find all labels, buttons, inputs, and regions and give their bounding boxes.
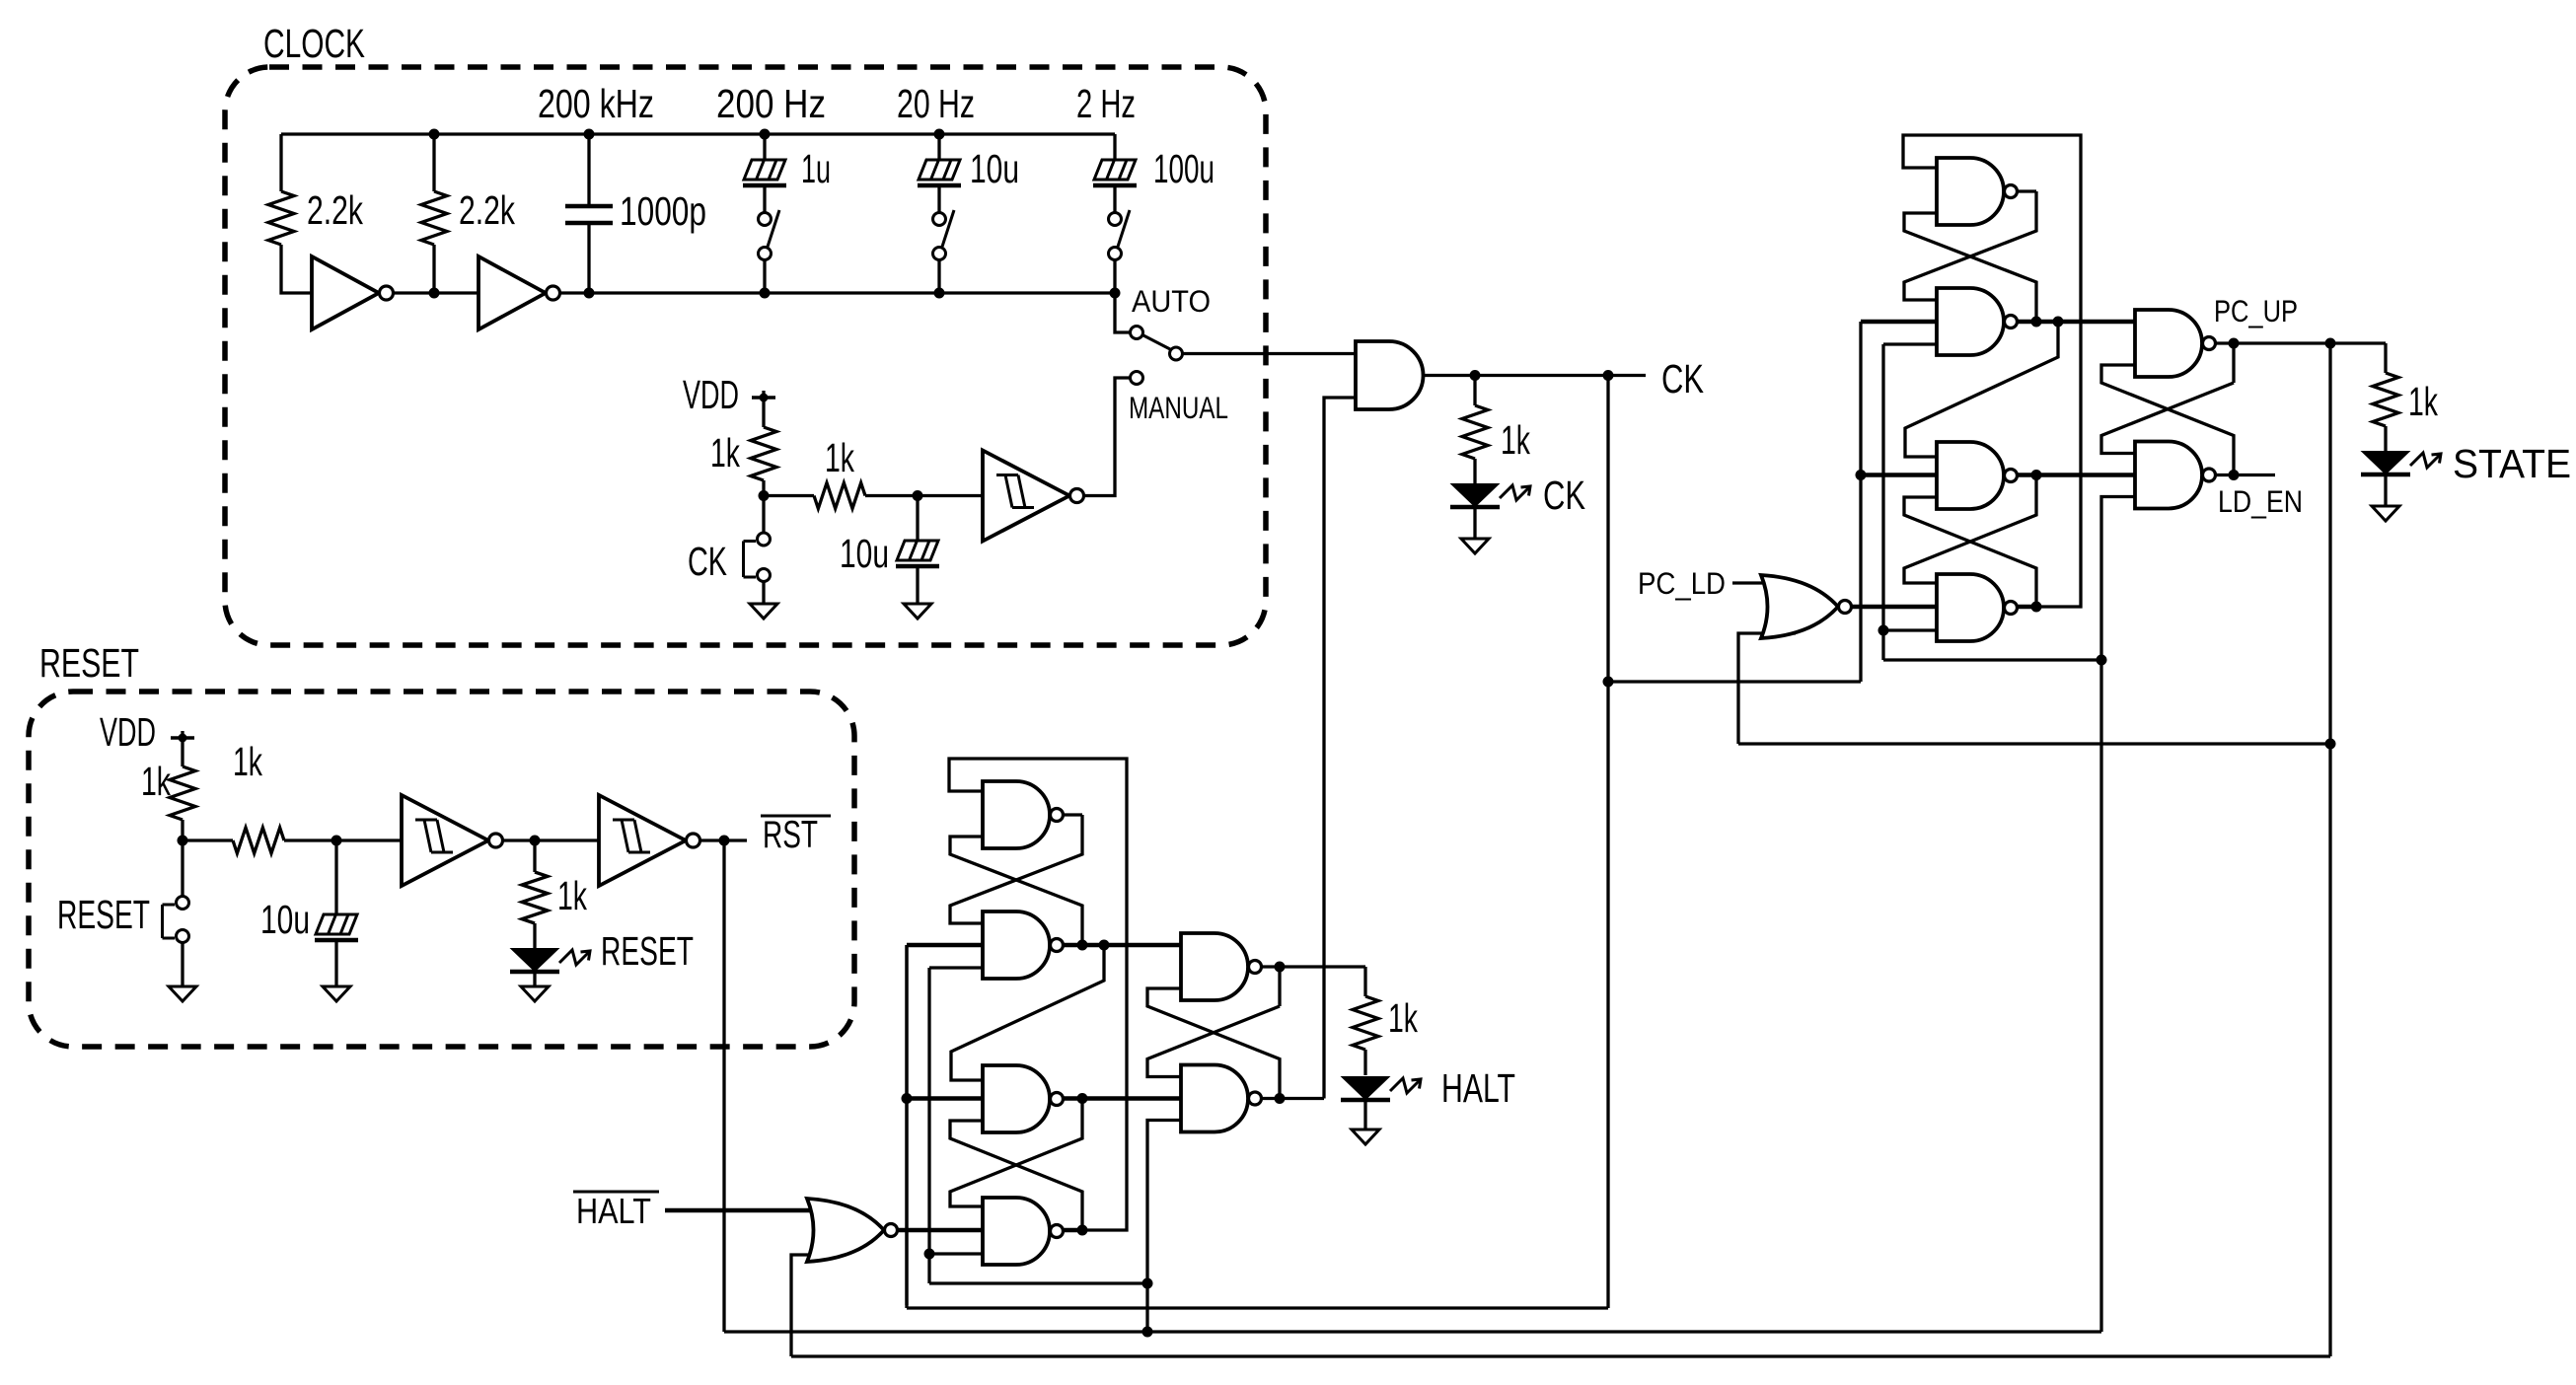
svg-text:1000p: 1000p xyxy=(620,188,706,234)
label R7 value 1k xyxy=(557,873,587,918)
wire CK bottom run xyxy=(907,1306,1608,1309)
junction G3 out (HALT latch) xyxy=(1077,1093,1088,1104)
wire MANUAL contact to Schmitt U2A output xyxy=(1083,378,1131,496)
wire R3 to junction xyxy=(762,480,765,533)
switch SW6 AUTO/MANUAL selector xyxy=(1131,327,1183,385)
junction reset rail G4 (HALT latch) xyxy=(924,1249,935,1260)
NAND U7B (HALT latch) xyxy=(983,911,1064,979)
wire HALT latch Q output row xyxy=(1262,965,1365,968)
junction oscillator top rail / R2 xyxy=(429,129,440,140)
label RESET pushbutton xyxy=(57,892,150,937)
svg-text:200 Hz: 200 Hz xyxy=(716,81,826,126)
svg-text:2 Hz: 2 Hz xyxy=(1076,81,1136,126)
wire R2 bottom xyxy=(432,245,435,293)
wire G3 output row (HALT latch) xyxy=(907,1096,1181,1101)
svg-text:1k: 1k xyxy=(710,430,740,475)
switch SW3 2Hz xyxy=(1109,210,1131,260)
resistor R7 1k xyxy=(522,872,548,923)
svg-text:1u: 1u xyxy=(801,146,831,191)
label R9 value 1k xyxy=(2408,379,2438,424)
wire C4 top xyxy=(1113,134,1116,160)
wire VDD to R3 xyxy=(762,391,765,427)
wire PC_LD input xyxy=(1732,581,1796,584)
VDD symbol (reset) xyxy=(171,734,194,743)
wire oscillator top rail xyxy=(281,132,1115,135)
Schmitt inverter U2A xyxy=(983,451,1084,542)
svg-text:1k: 1k xyxy=(825,435,854,480)
capacitor C4 100u xyxy=(1093,160,1137,185)
wire SW3 bottom xyxy=(1113,259,1116,293)
wire SW1 bottom xyxy=(763,259,766,293)
svg-text:RESET: RESET xyxy=(39,640,139,686)
svg-text:RESET: RESET xyxy=(57,892,150,937)
junction clock rail G3 (STATE latch) xyxy=(1856,470,1867,480)
label RESET section xyxy=(39,640,139,686)
wire U3B output to RST node xyxy=(699,838,747,841)
wire G2 output row (HALT latch) xyxy=(907,943,1181,948)
wire feedback G4 to G1 (STATE latch) xyxy=(1903,135,2081,607)
capacitor C1 1000p xyxy=(565,206,613,223)
svg-text:VDD: VDD xyxy=(683,372,739,417)
svg-text:1k: 1k xyxy=(233,739,262,784)
ground (LED D3) xyxy=(2372,506,2399,521)
wire G4 out to G3 in cross (HALT latch) xyxy=(950,1121,1082,1230)
svg-text:1k: 1k xyxy=(1388,995,1418,1041)
wire NOR U6A lower input from PC_UP run xyxy=(791,1255,817,1356)
label R10 value 1k xyxy=(1388,995,1418,1041)
wire G2 output row (STATE latch) xyxy=(1861,320,2135,325)
wire R5 to junction xyxy=(181,820,184,897)
label VDD (reset) xyxy=(100,709,156,755)
VDD symbol (clock) xyxy=(752,394,775,402)
label LED D2 CK xyxy=(1543,473,1585,518)
LED D2 CK xyxy=(1450,484,1530,507)
junction G4 out (STATE latch) xyxy=(2031,602,2042,613)
wire R4 to Schmitt U2A input xyxy=(865,494,983,497)
svg-text:HALT: HALT xyxy=(576,1191,651,1231)
svg-text:PC_UP: PC_UP xyxy=(2214,293,2298,328)
junction PC_UP feedback xyxy=(2325,338,2336,349)
label LED D3 STATE xyxy=(2453,441,2571,486)
junction U3A output node xyxy=(530,836,541,846)
ground (LED D4) xyxy=(1352,1130,1379,1144)
wire R7 to LED D1 xyxy=(533,923,536,949)
resistor R3 1k xyxy=(751,427,776,480)
junction C6 node xyxy=(331,836,342,846)
NAND U7C (HALT latch) xyxy=(983,1065,1064,1132)
wire G5 out leg (STATE latch) xyxy=(2232,343,2235,383)
junction G3 out (STATE latch) xyxy=(2031,470,2042,480)
wire G4 output row (STATE latch) xyxy=(1852,605,2036,610)
wire reset rail stub G2 (STATE latch) xyxy=(1883,342,1937,345)
junction CK to state latch clock xyxy=(1603,677,1614,688)
pushbutton SW5 CK xyxy=(744,533,771,582)
wire C6 top xyxy=(334,840,337,914)
wire G4 output row (HALT latch) xyxy=(898,1228,1082,1233)
wire C3 to SW2 xyxy=(937,187,940,213)
NAND U10A (STATE latch) xyxy=(2135,310,2216,377)
wire G4 out to G3 in cross (STATE latch) xyxy=(1904,497,2036,607)
svg-text:1k: 1k xyxy=(557,873,587,918)
wire clock rail (HALT latch) xyxy=(905,945,908,1305)
label C3 value 10u xyxy=(970,146,1019,191)
label VDD (clock) xyxy=(683,372,739,417)
junction G2 out A (HALT latch) xyxy=(1077,940,1088,951)
wire LED D2 to ground xyxy=(1473,509,1476,539)
junction CK LED branch xyxy=(1470,370,1481,381)
wire CK net from AND gate U4A xyxy=(1424,374,1647,377)
junction VDD divider node (reset) xyxy=(178,836,188,846)
junction clock rail G3 (HALT latch) xyxy=(902,1093,913,1104)
inverter U1B xyxy=(478,256,560,329)
wire reset rail (HALT latch) xyxy=(927,968,930,1283)
svg-text:10u: 10u xyxy=(970,146,1019,191)
junction CK vertical branch xyxy=(1603,370,1614,381)
svg-text:1k: 1k xyxy=(141,759,171,804)
label C2 value 1u xyxy=(801,146,831,191)
wire PC_UP feedback horizontal xyxy=(1738,742,2330,745)
wire G5 out leg (HALT latch) xyxy=(1278,967,1281,1006)
wire G2 out to G1 in cross (HALT latch) xyxy=(950,837,1082,945)
wire G5 out to G6 in cross (STATE latch) xyxy=(2101,383,2234,454)
label 2 Hz xyxy=(1076,81,1136,126)
wire clock rail (STATE latch) xyxy=(1859,322,1862,682)
wire C2 to SW1 xyxy=(763,187,766,213)
label R5 value 1k xyxy=(141,759,171,804)
wire VDD to R5 xyxy=(181,731,184,766)
junction oscillator top rail / C2 xyxy=(760,129,771,140)
label R8 value 1k xyxy=(1501,417,1530,463)
wire PC_UP output row xyxy=(2216,341,2386,344)
label HALT-bar input xyxy=(576,1191,651,1231)
inverter U1A xyxy=(312,256,394,329)
svg-text:1k: 1k xyxy=(1501,417,1530,463)
overline HALT xyxy=(573,1191,659,1194)
wire G1 out to G2 in cross (STATE latch) xyxy=(1904,191,2036,300)
wire feedback G4 to G1 (HALT latch) xyxy=(949,759,1127,1230)
svg-text:10u: 10u xyxy=(840,531,889,576)
wire U3A output to U3B input xyxy=(502,838,599,841)
overline RST xyxy=(761,815,831,818)
resistor R4 1k xyxy=(814,483,865,509)
wire R8 to LED D2 xyxy=(1473,459,1476,484)
wire clock rail bottom (HALT latch) xyxy=(905,945,908,1308)
svg-text:RESET: RESET xyxy=(601,928,694,974)
wire PC_UP bottom run xyxy=(791,1354,2330,1357)
wire G1 output stub (STATE latch) xyxy=(2018,189,2036,192)
junction reset rail link (HALT latch) xyxy=(1142,1278,1153,1289)
switch SW1 200Hz xyxy=(759,210,780,260)
svg-text:20 Hz: 20 Hz xyxy=(897,81,975,126)
svg-text:STATE: STATE xyxy=(2453,441,2571,486)
pushbutton SW4 RESET xyxy=(163,897,189,943)
NOR gate U6A xyxy=(807,1199,898,1262)
wire LD_EN output row xyxy=(2216,474,2275,476)
NAND U8B (HALT latch) xyxy=(1181,1065,1262,1132)
label CLOCK xyxy=(263,21,365,66)
label CK pushbutton xyxy=(688,539,727,584)
wire G6 lower input rail (STATE latch) xyxy=(2101,497,2135,661)
junction G2 out A (STATE latch) xyxy=(2031,317,2042,328)
capacitor C2 1u xyxy=(743,160,786,185)
wire CK vertical run xyxy=(1606,376,1609,1309)
LED D3 STATE xyxy=(2361,452,2441,474)
wire G3 output row (STATE latch) xyxy=(1861,473,2135,477)
NOR gate U6B xyxy=(1761,575,1852,638)
switch SW2 20Hz xyxy=(933,210,955,260)
NAND U7D (HALT latch) xyxy=(983,1198,1064,1265)
wire reset rail down to RST run (HALT latch) xyxy=(1145,1283,1148,1332)
wire U1A output to U1B input xyxy=(394,291,478,294)
svg-text:LD_EN: LD_EN xyxy=(2218,483,2303,519)
svg-text:100u: 100u xyxy=(1153,146,1214,191)
wire G6 lower input rail (HALT latch) xyxy=(1147,1121,1181,1284)
svg-text:HALT: HALT xyxy=(1441,1065,1515,1111)
resistor R10 1k xyxy=(1353,996,1378,1050)
wire G6 out to G5 in cross (HALT latch) xyxy=(1147,988,1280,1099)
wire R1 top xyxy=(279,134,282,191)
wire C1 top xyxy=(587,134,590,204)
NAND U9D (STATE latch) xyxy=(1937,574,2018,641)
svg-text:200 kHz: 200 kHz xyxy=(538,81,654,126)
wire R7 top xyxy=(533,840,536,872)
label 200 Hz xyxy=(716,81,826,126)
wire G5 out to G6 in cross (HALT latch) xyxy=(1147,1006,1280,1077)
wire C3 top xyxy=(937,134,940,160)
wire junction to C5 xyxy=(916,496,919,542)
label C1 value 1000p xyxy=(620,188,706,234)
wire reset rail bottom link (STATE latch) xyxy=(1883,658,2101,661)
svg-text:AUTO: AUTO xyxy=(1132,283,1211,319)
wire reset rail stub G2 (HALT latch) xyxy=(929,966,983,969)
junction G2 out B (STATE latch) xyxy=(2053,317,2064,328)
Schmitt inverter U3B xyxy=(599,795,700,886)
junction RST node xyxy=(719,836,730,846)
wire C6 to ground xyxy=(334,942,337,986)
wire to AUTO contact xyxy=(1115,293,1131,332)
label C4 value 100u xyxy=(1153,146,1214,191)
wire R8 top xyxy=(1473,376,1476,406)
wire PC_UP feedback vertical xyxy=(2328,343,2331,1356)
CLOCK section dashed border xyxy=(225,67,1266,645)
wire reset rail down to RST run (STATE latch) xyxy=(2099,660,2102,1332)
label LED D4 HALT xyxy=(1441,1065,1515,1111)
junction U1B row / SW1 xyxy=(760,288,771,299)
wire reset rail bottom link (HALT latch) xyxy=(929,1281,1147,1284)
label C6 value 10u xyxy=(260,897,310,942)
wire G3 out to G4 in cross (HALT latch) xyxy=(950,1099,1082,1207)
wire G2 out to G3 in (STATE latch) xyxy=(1905,322,2058,457)
wire LED D1 to ground xyxy=(533,974,536,986)
RESET section dashed border xyxy=(29,692,854,1047)
resistor R5 1k xyxy=(170,766,195,820)
wire SW2 bottom xyxy=(937,259,940,293)
NAND U9B (STATE latch) xyxy=(1937,288,2018,355)
svg-text:VDD: VDD xyxy=(100,709,156,755)
label MANUAL xyxy=(1129,390,1228,425)
wire G3 out to G4 in cross (STATE latch) xyxy=(1904,475,2036,584)
wire C2 top xyxy=(763,134,766,160)
label R4 value 1k xyxy=(825,435,854,480)
label AUTO xyxy=(1132,283,1211,319)
junction reset rail G4 (STATE latch) xyxy=(1878,625,1889,636)
svg-text:RST: RST xyxy=(763,814,818,856)
junction Q-bar cross (HALT latch) xyxy=(1275,1093,1286,1104)
resistor R2 2.2k xyxy=(421,191,447,245)
svg-text:CK: CK xyxy=(1543,473,1585,518)
junction LD_EN cross xyxy=(2229,470,2240,480)
wire LED D3 to ground xyxy=(2384,476,2387,506)
ground (clock pushbutton) xyxy=(750,604,777,619)
junction PC_UP feedback bottom xyxy=(2325,739,2336,750)
capacitor C5 10u xyxy=(896,541,939,566)
label R3 value 1k xyxy=(710,430,740,475)
NAND U7A (HALT latch) xyxy=(983,781,1064,848)
label CK net xyxy=(1661,356,1704,401)
junction G4 out (HALT latch) xyxy=(1077,1225,1088,1236)
label PC_LD xyxy=(1638,565,1726,601)
label PC_UP xyxy=(2214,293,2298,328)
wire reset rail stub G4 (STATE latch) xyxy=(1883,628,1937,631)
wire R1 bottom to inverter U1A input xyxy=(281,245,312,293)
svg-text:CK: CK xyxy=(688,539,727,584)
AND gate U4A xyxy=(1356,341,1424,409)
wire R9 to LED D3 xyxy=(2384,426,2387,452)
wire U1B output rail xyxy=(560,291,1115,294)
resistor R9 1k xyxy=(2373,373,2398,426)
junction U1B row / R2 xyxy=(429,288,440,299)
junction C5 node xyxy=(913,490,923,501)
wire HALT latch Q-bar row to AND feedback xyxy=(1262,1097,1324,1100)
LED D4 HALT xyxy=(1341,1077,1421,1100)
wire G1 output stub (HALT latch) xyxy=(1064,813,1082,816)
wire LED D4 to ground xyxy=(1363,1100,1366,1130)
NAND U9A (STATE latch) xyxy=(1937,158,2018,225)
wire R2 top xyxy=(432,134,435,191)
label R6 value 1k xyxy=(233,739,262,784)
junction G2 out B (HALT latch) xyxy=(1099,940,1110,951)
junction U1B row / C1 xyxy=(584,288,595,299)
svg-text:CLOCK: CLOCK xyxy=(263,21,365,66)
wire R6 to C6 junction xyxy=(284,838,402,841)
svg-text:1k: 1k xyxy=(2408,379,2438,424)
wire Q to R10 xyxy=(1363,967,1366,996)
junction U1B row / SW2 xyxy=(934,288,945,299)
svg-text:2.2k: 2.2k xyxy=(459,187,515,233)
ground (clock C5) xyxy=(904,604,931,619)
LED D1 RESET xyxy=(510,949,590,972)
wire C4 to SW3 xyxy=(1113,187,1116,213)
wire reset rail stub G4 (HALT latch) xyxy=(929,1252,983,1255)
junction reset rail link (STATE latch) xyxy=(2097,655,2107,666)
svg-text:CK: CK xyxy=(1661,356,1704,401)
wire G2 out to G3 in (HALT latch) xyxy=(951,945,1104,1080)
NAND U9C (STATE latch) xyxy=(1937,442,2018,509)
wire G1 out to G2 in cross (HALT latch) xyxy=(950,815,1082,923)
ground (reset pushbutton) xyxy=(169,986,196,1001)
NAND U8A (HALT latch) xyxy=(1181,933,1262,1000)
wire pushbutton SW4 to ground xyxy=(181,943,184,987)
wire reset rail (STATE latch) xyxy=(1881,344,1884,660)
resistor R6 1k xyxy=(233,828,284,853)
junction oscillator top rail / C1 xyxy=(584,129,595,140)
junction Q output cross (HALT latch) xyxy=(1275,962,1286,973)
wire selector common to AND gate U4A input xyxy=(1183,352,1357,355)
Schmitt inverter U3A xyxy=(402,795,503,886)
junction oscillator top rail / C3 xyxy=(934,129,945,140)
wire C1 bottom xyxy=(587,225,590,293)
capacitor C3 10u xyxy=(918,160,961,185)
capacitor C6 10u xyxy=(315,914,358,940)
svg-text:2.2k: 2.2k xyxy=(307,187,363,233)
label 200 kHz xyxy=(538,81,654,126)
NAND U10B (STATE latch) xyxy=(2135,442,2216,509)
svg-text:10u: 10u xyxy=(260,897,310,942)
wire G6 out to G5 in cross (STATE latch) xyxy=(2101,365,2234,475)
wire RST bottom run xyxy=(724,1330,2101,1333)
label RST node xyxy=(763,814,818,856)
ground (reset C6) xyxy=(323,986,350,1001)
ground (LED D1) xyxy=(521,986,549,1001)
wire HALT-bar input xyxy=(665,1208,817,1213)
wire G2 out to G1 in cross (STATE latch) xyxy=(1904,213,2036,322)
ground (LED D2) xyxy=(1461,539,1489,553)
label R2 value 2.2k xyxy=(459,187,515,233)
wire R10 to LED D4 xyxy=(1363,1050,1366,1075)
wire RST vertical xyxy=(722,840,725,1332)
junction PC_UP output xyxy=(2229,338,2240,349)
resistor R1 2.2k xyxy=(268,191,294,245)
label 20 Hz xyxy=(897,81,975,126)
wire CK branch to state latch clock rail xyxy=(1608,680,1861,683)
resistor R8 1k xyxy=(1462,405,1488,459)
wire AND gate U4A lower input from HALT latch xyxy=(1324,398,1356,1099)
svg-text:PC_LD: PC_LD xyxy=(1638,565,1726,601)
label R1 value 2.2k xyxy=(307,187,363,233)
wire junction to R6 xyxy=(183,838,233,841)
label LD_EN xyxy=(2218,483,2303,519)
junction U1B row / SW3 selector xyxy=(1110,288,1121,299)
junction VDD divider node (clock) xyxy=(759,490,770,501)
label LED D1 RESET xyxy=(601,928,694,974)
wire junction to R4 xyxy=(764,494,814,497)
wire PC_UP to R9 xyxy=(2384,343,2387,373)
wire pushbutton SW5 to ground xyxy=(762,582,765,605)
label C5 value 10u xyxy=(840,531,889,576)
svg-text:MANUAL: MANUAL xyxy=(1129,390,1228,425)
wire NOR U6B lower input feedback xyxy=(1738,633,1796,744)
junction RST run / HALT latch rail xyxy=(1142,1327,1153,1338)
wire C5 to ground xyxy=(916,568,919,604)
